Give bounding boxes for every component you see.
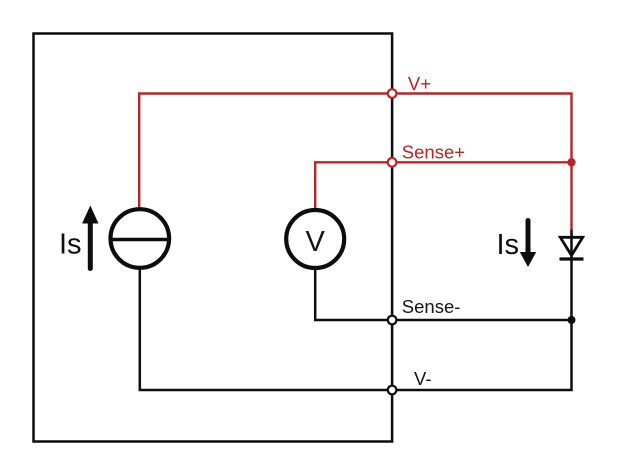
svg-text:V+: V+	[408, 73, 431, 94]
svg-text:V-: V-	[414, 368, 431, 389]
svg-text:Is: Is	[59, 228, 82, 260]
svg-text:Is: Is	[497, 229, 520, 261]
svg-text:V: V	[306, 226, 326, 258]
svg-text:Sense-: Sense-	[402, 296, 461, 317]
svg-text:Sense+: Sense+	[402, 142, 465, 163]
